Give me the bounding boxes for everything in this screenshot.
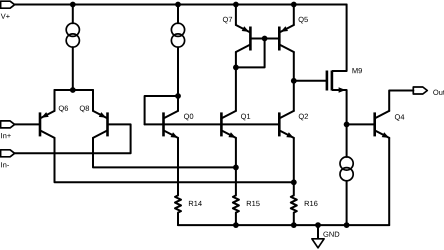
junction Q7/Q5 bases: [262, 36, 268, 42]
transistor Q5 (PNP): [279, 25, 294, 52]
wire GND rail: [178, 224, 389, 226]
wire GND stub: [317, 225, 319, 239]
label R16: [305, 201, 318, 206]
label In-: [1, 162, 9, 167]
wire I2 top: [177, 5, 179, 24]
wire I1 top: [72, 5, 74, 24]
wire Q4 collector to Out: [389, 91, 413, 111]
wire V+ rail drop to M9 drain: [346, 5, 348, 72]
junction Q1 emitter / net A: [233, 165, 239, 171]
wire Q6 collector to Q2 emitter (net B): [55, 138, 294, 182]
wire Q2 collector: [293, 81, 295, 111]
junction V+ rail / I2: [175, 2, 181, 8]
wire In+ to Q6 base: [15, 123, 40, 125]
label Q4: [395, 114, 404, 121]
mosfet M9: [327, 71, 347, 93]
label Q2: [299, 114, 308, 121]
wire Q7/Q5 base tie: [250, 38, 279, 40]
current source I3: [340, 157, 353, 170]
wire R15 to GND rail: [235, 213, 237, 226]
wire R16 to GND rail: [293, 213, 295, 226]
wire I2 to Q0 collector: [177, 47, 179, 96]
junction Q2 emitter / net B: [291, 179, 297, 185]
junction M9 source / Q4 base / I3: [344, 122, 350, 128]
wire R14 to GND rail: [177, 213, 179, 226]
wire Q7 collector: [235, 52, 237, 67]
wire I1 to diff pair emitters: [72, 47, 74, 90]
junction V+ rail / Q5 emitter: [291, 2, 297, 8]
label Q6: [59, 106, 68, 113]
label M9: [353, 68, 362, 73]
wire Q1 emitter to R15: [235, 138, 237, 196]
label Q8: [80, 106, 89, 113]
wire Q0/Q1/Q2 base bus: [145, 123, 280, 125]
wire Q4 emitter to GND: [388, 138, 390, 225]
label GND: [323, 232, 339, 237]
junction Q5/Q2 collectors / M9 gate: [291, 78, 297, 84]
junction R16 / GND rail: [291, 222, 297, 228]
port Out: [413, 87, 427, 94]
wire Q2 emitter to R16: [293, 138, 295, 196]
label V+: [1, 14, 10, 19]
wire Q5 collector: [293, 52, 295, 81]
junction R15 / GND rail: [233, 222, 239, 228]
wire I3 to GND: [346, 181, 348, 225]
wire to I3: [346, 124, 348, 156]
resistor R15: [233, 195, 239, 212]
label R15: [247, 201, 260, 206]
resistor R16: [291, 195, 297, 212]
label Q7: [223, 17, 232, 24]
wire In- to Q8 base: [15, 124, 131, 153]
port V+: [1, 1, 15, 8]
transistor Q4 (NPN): [375, 111, 390, 138]
transistor Q8 (PNP): [93, 111, 108, 138]
wire M9 gate: [294, 80, 327, 82]
wire Q8 emitter vertical: [92, 90, 94, 111]
ground symbol: [312, 239, 324, 248]
wire Q7 diode connection: [236, 39, 265, 68]
wire Q4 base: [347, 123, 375, 125]
label In+: [1, 133, 11, 138]
transistor Q2 (NPN): [279, 111, 294, 138]
transistor Q0 (NPN): [164, 111, 179, 138]
port In-: [1, 150, 15, 157]
port In+: [1, 121, 15, 128]
junction I3 / GND rail: [344, 222, 350, 228]
wire Q0 diode connection: [145, 96, 178, 124]
junction Q7 collector / Q1 collector: [233, 65, 239, 71]
wire Q8 collector to Q1 emitter (net A): [93, 138, 236, 168]
wire emitter distribution bar: [55, 89, 94, 91]
wire V+ rail: [15, 4, 347, 6]
wire Q7 emitter: [235, 5, 237, 26]
transistor Q6 (PNP): [40, 111, 55, 138]
wire Q0 collector: [177, 96, 179, 111]
junction Q0 collector / base loop: [175, 93, 181, 99]
wire Q5 emitter: [293, 5, 295, 26]
junction V+ rail / Q7 emitter: [233, 2, 239, 8]
junction GND tap: [315, 222, 321, 228]
wire Q6 emitter vertical: [54, 90, 56, 111]
label Q5: [299, 17, 308, 24]
label R14: [189, 201, 202, 206]
transistor Q1 (NPN): [221, 111, 236, 138]
junction V+ rail / I1: [70, 2, 76, 8]
wire M9 source down: [346, 90, 348, 124]
current source I2: [171, 23, 184, 36]
label Out: [433, 90, 444, 95]
transistor Q7 (PNP): [236, 25, 251, 52]
label Q0: [184, 114, 193, 121]
resistor R14: [175, 195, 181, 212]
current source I1: [66, 23, 79, 36]
wire Q1 collector: [235, 67, 237, 111]
junction emitter bar: [70, 87, 76, 93]
label Q1: [241, 114, 250, 121]
wire Q0 emitter to R14: [177, 138, 179, 196]
